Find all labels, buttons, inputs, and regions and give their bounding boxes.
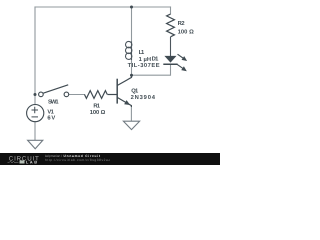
wire SW1 to R1 bbox=[69, 94, 85, 96]
footer bar bbox=[0, 153, 220, 165]
wire V1 to ground bbox=[34, 122, 36, 140]
switch SW1 bbox=[39, 85, 69, 97]
ground under Q1 bbox=[123, 121, 139, 129]
wire left vertical bbox=[34, 7, 36, 105]
svg-text:Q1: Q1 bbox=[131, 87, 139, 94]
node V1/SW1 junction bbox=[34, 93, 37, 96]
light arrows bbox=[178, 54, 184, 58]
svg-text:6 V: 6 V bbox=[47, 114, 55, 121]
svg-text:http://circuitlab.com/c/8sg38v: http://circuitlab.com/c/8sg38v2az bbox=[45, 158, 110, 162]
voltage source V1 bbox=[27, 105, 44, 122]
wire D1 to collector node bbox=[132, 65, 171, 76]
svg-text:TIL-307EE: TIL-307EE bbox=[128, 62, 160, 69]
svg-text:R2: R2 bbox=[178, 20, 185, 27]
wire R2 to D1 bbox=[170, 38, 172, 57]
transistor Q1 bbox=[108, 75, 132, 107]
svg-text:LAB: LAB bbox=[26, 161, 37, 165]
ground under V1 bbox=[28, 140, 43, 149]
wire emitter to ground bbox=[130, 107, 132, 122]
wire top horizontal bbox=[35, 6, 171, 8]
wire R2 top lead bbox=[170, 7, 172, 14]
svg-text:2N3904: 2N3904 bbox=[131, 94, 156, 101]
svg-text:100 Ω: 100 Ω bbox=[90, 109, 106, 116]
svg-text:SW1: SW1 bbox=[48, 98, 59, 105]
wire L1 branch top lead bbox=[131, 7, 133, 42]
resistor R1 bbox=[85, 91, 108, 99]
wire L1 bottom lead bbox=[131, 60, 133, 75]
svg-text:L1: L1 bbox=[139, 50, 145, 56]
node top junction bbox=[130, 6, 133, 9]
resistor R2 bbox=[167, 14, 175, 37]
inductor L1 bbox=[126, 41, 132, 60]
LED D1 bbox=[163, 54, 187, 71]
footer logo zigzag + LAB bbox=[8, 161, 19, 163]
svg-text:100 Ω: 100 Ω bbox=[178, 29, 195, 36]
svg-text:R1: R1 bbox=[93, 104, 100, 110]
svg-text:V1: V1 bbox=[47, 109, 54, 115]
svg-text:D1: D1 bbox=[152, 56, 160, 62]
node collector junction bbox=[130, 74, 133, 77]
emitter arrowhead bbox=[124, 100, 130, 105]
